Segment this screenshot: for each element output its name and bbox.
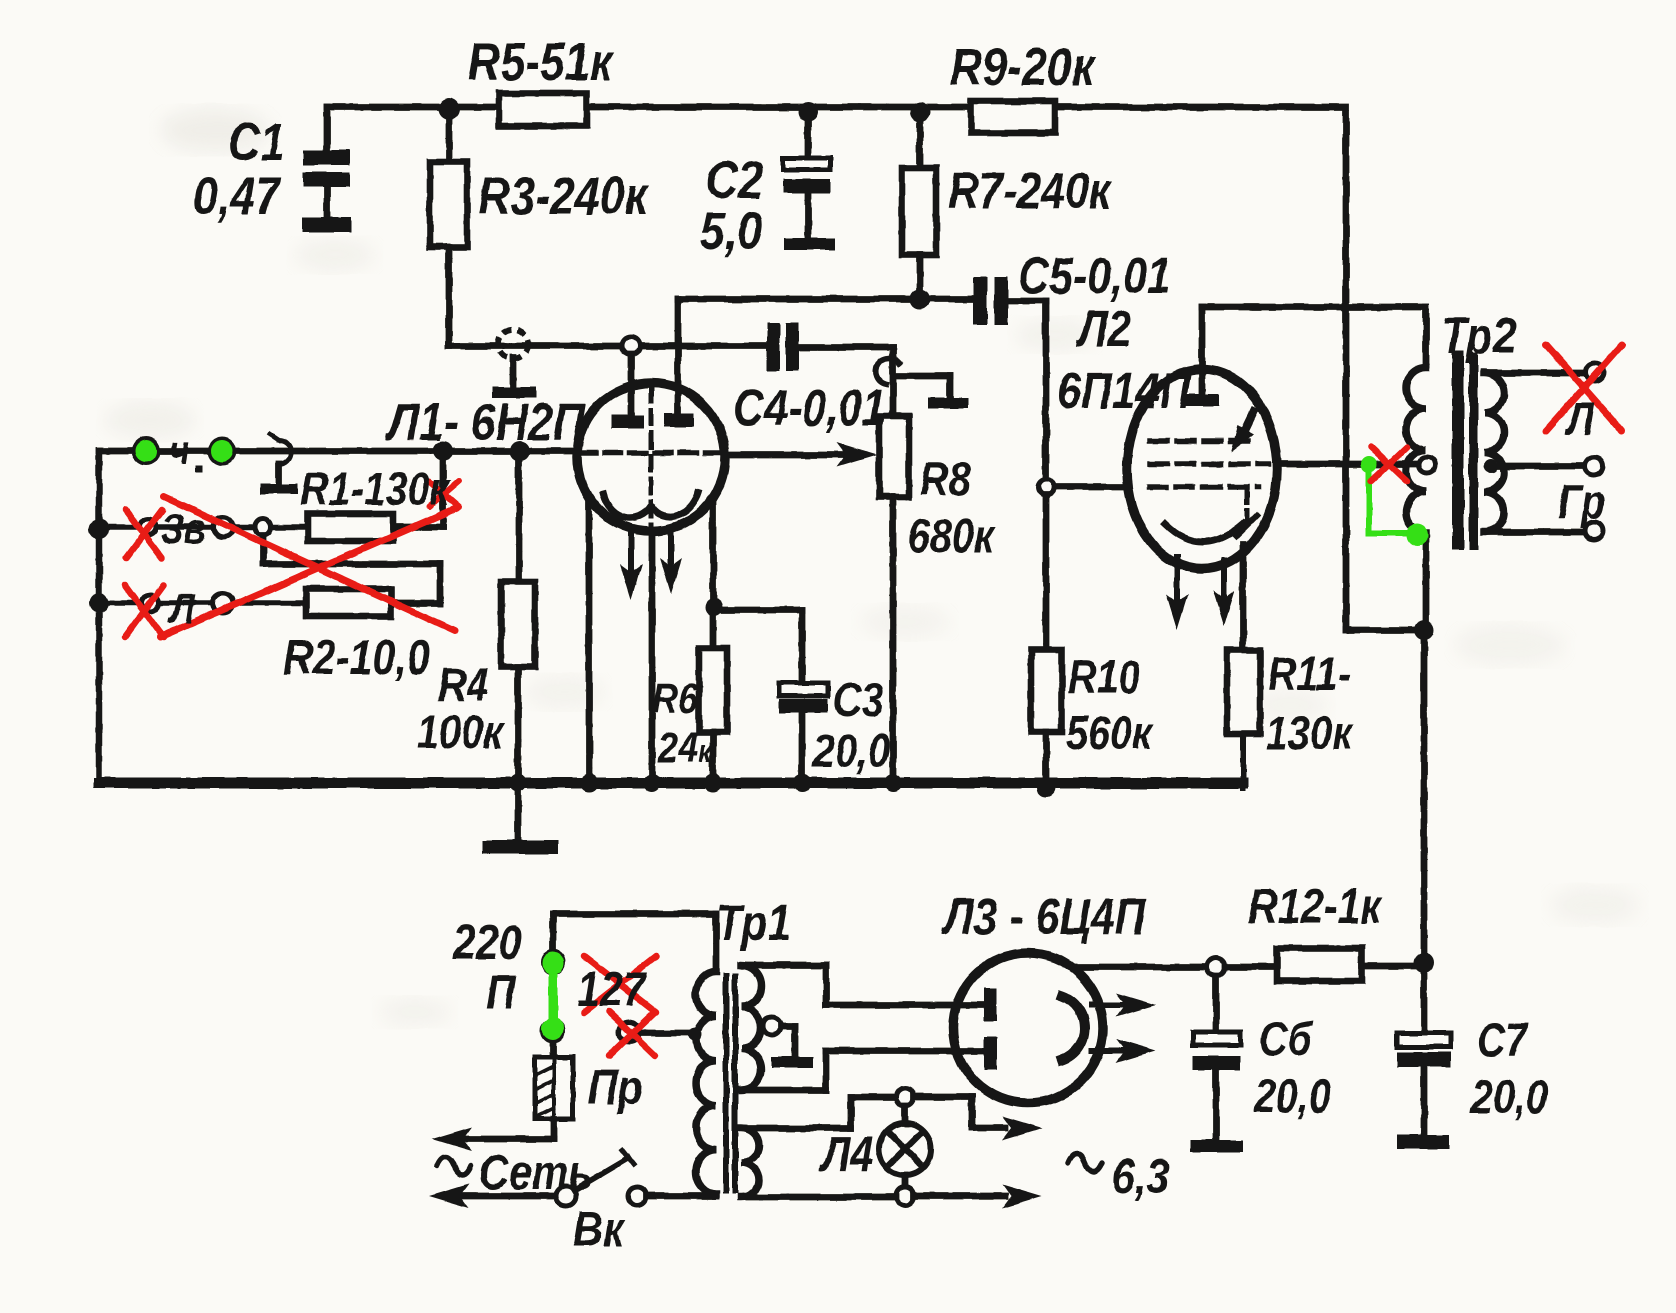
svg-text:220: 220 <box>452 915 522 970</box>
svg-text:R10: R10 <box>1068 652 1141 704</box>
svg-text:C1: C1 <box>228 114 285 172</box>
svg-text:Тр2: Тр2 <box>1441 307 1516 364</box>
svg-text:C4-0,01: C4-0,01 <box>733 379 886 436</box>
svg-text:R12-1к: R12-1к <box>1248 879 1383 934</box>
svg-text:Л: Л <box>167 585 195 633</box>
svg-text:560к: 560к <box>1066 708 1154 760</box>
svg-text:R5-51к: R5-51к <box>468 34 614 92</box>
svg-text:C3: C3 <box>833 675 884 727</box>
svg-text:C5-0,01: C5-0,01 <box>1018 247 1171 304</box>
svg-text:100к: 100к <box>417 707 505 759</box>
svg-text:20,0: 20,0 <box>812 726 890 778</box>
svg-text:R11-: R11- <box>1268 649 1351 701</box>
svg-text:6,3: 6,3 <box>1112 1149 1169 1204</box>
svg-text:20,0: 20,0 <box>1253 1071 1331 1123</box>
svg-text:C7: C7 <box>1477 1015 1529 1067</box>
svg-text:R6: R6 <box>652 675 699 723</box>
svg-text:R1-130к: R1-130к <box>300 464 452 516</box>
svg-text:Сб: Сб <box>1259 1014 1313 1066</box>
svg-text:R4: R4 <box>438 660 489 712</box>
svg-text:R2-10,0: R2-10,0 <box>283 630 430 685</box>
svg-text:Пр: Пр <box>588 1060 643 1115</box>
svg-text:R7-240к: R7-240к <box>948 162 1113 219</box>
svg-text:Л1- 6Н2П: Л1- 6Н2П <box>385 394 586 452</box>
svg-text:Л2: Л2 <box>1075 300 1131 357</box>
svg-text:R3-240к: R3-240к <box>478 168 649 226</box>
svg-text:Сеть: Сеть <box>479 1145 593 1200</box>
svg-text:R9-20к: R9-20к <box>950 39 1096 97</box>
svg-text:C2: C2 <box>706 152 763 210</box>
svg-text:Зв: Зв <box>161 505 206 553</box>
svg-text:П: П <box>486 965 517 1020</box>
svg-text:ч: ч <box>170 427 190 472</box>
svg-text:Л3 - 6Ц4П: Л3 - 6Ц4П <box>941 888 1146 945</box>
svg-text:Л4: Л4 <box>819 1127 873 1182</box>
svg-text:Тр1: Тр1 <box>716 894 791 951</box>
svg-text:6П14П: 6П14П <box>1057 362 1192 419</box>
svg-text:20,0: 20,0 <box>1470 1072 1548 1124</box>
svg-text:0,47: 0,47 <box>193 168 283 226</box>
svg-text:Вк: Вк <box>573 1202 626 1257</box>
svg-text:Гр: Гр <box>1558 477 1605 529</box>
svg-text:R8: R8 <box>920 454 971 506</box>
svg-text:Л: Л <box>1564 394 1595 446</box>
svg-text:5,0: 5,0 <box>700 203 762 261</box>
svg-text:127: 127 <box>577 962 648 1017</box>
svg-text:680к: 680к <box>908 511 996 563</box>
svg-text:130к: 130к <box>1266 708 1354 760</box>
